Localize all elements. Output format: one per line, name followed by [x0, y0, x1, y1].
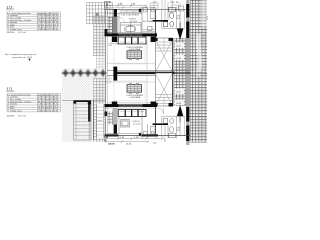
- window symbol top: [150, 3, 158, 8]
- svg-text:1.50: 1.50: [153, 143, 157, 145]
- terrain hatch strip left of plans (bottom): [93, 78, 106, 142]
- carpet outline (top living): [114, 45, 145, 65]
- kitchen wall x155.5 (top): [155, 10, 157, 38]
- small appliance blob (top): [148, 27, 153, 31]
- corner hatch bleed (bottom plan NW): [106, 76, 113, 84]
- area table unit 1/1: [7, 94, 61, 112]
- door label box top: [172, 5, 179, 10]
- bathroom dark wall (top): [153, 20, 169, 22]
- stair top black blob: [169, 38, 174, 41]
- svg-text:11.45: 11.45: [126, 144, 132, 146]
- lower flight white channel: [97, 104, 105, 138]
- left outer wall (double): [104, 10, 106, 136]
- terrain hatch strip left of plans (top): [93, 15, 105, 56]
- interior wall x147.5 (bottom): [147, 124, 149, 138]
- sofa blob (bottom room): [121, 120, 130, 128]
- level text in hatch (top): [175, 43, 184, 49]
- carpet outline (bottom living): [114, 81, 145, 101]
- kitchen wall x155.5 (bottom): [155, 107, 157, 136]
- svg-text:RAZEM : 70.76 m2: RAZEM : 70.76 m2: [7, 31, 27, 34]
- stair bottom black blob: [169, 103, 174, 107]
- right wall black segment 4 (bottom plan): [186, 126, 189, 142]
- level text in hatch (bottom): [175, 89, 184, 95]
- svg-text:RAZEM : 70.76 m2: RAZEM : 70.76 m2: [7, 114, 27, 117]
- dining table symbol (top): [127, 49, 142, 60]
- right wall black segment 3 (bottom plan): [186, 107, 189, 122]
- course dash line top: [186, 29, 207, 31]
- shrub bursts: [61, 69, 107, 77]
- terrain hatch field right of stair (top plan): [174, 38, 191, 73]
- terrain garden bottom-left: [62, 78, 93, 142]
- bathroom tiny text (top): [177, 16, 181, 21]
- interior vertical x147 (top): [146, 41, 148, 71]
- stair dark right rail: [88, 101, 91, 122]
- cabinet row (top plan): [118, 37, 146, 44]
- svg-text:7. schody zewn.: 7. schody zewn.: [8, 111, 23, 113]
- wall hatch bar above bottom pier: [113, 108, 118, 125]
- bottom outer wall line: [105, 135, 191, 137]
- chimney verticals above stair: [162, 0, 180, 10]
- bathroom walls (bottom): [162, 116, 180, 139]
- dining table symbol (bottom): [127, 83, 142, 94]
- hedge center line: [62, 72, 107, 74]
- lighter top-right corner of terrain: [201, 0, 208, 27]
- interior wall x142 (top): [141, 7, 143, 36]
- table unit 1/2 cell texts: [8, 13, 60, 31]
- sheet background: [0, 0, 210, 145]
- label underline: [6, 9, 14, 11]
- stair box (bottom plan): [156, 73, 173, 106]
- walkway light path in terrain: [198, 34, 200, 76]
- entrance arrow (top): [177, 29, 184, 41]
- svg-text:1/1.: 1/1.: [6, 87, 14, 92]
- revision note block: [5, 53, 37, 59]
- stair right wall dark (bottom): [172, 73, 174, 106]
- living room label (bottom): [127, 95, 144, 99]
- revision mark triangle: [28, 59, 30, 62]
- shaft hatch block (top entry corner): [107, 17, 112, 34]
- area table unit 1/2: [7, 12, 61, 30]
- top dimension line: [104, 5, 146, 7]
- upper window lines (top wall): [120, 11, 142, 12]
- right outer wall grey band: [186, 0, 189, 145]
- bottom dimension text block: [104, 137, 139, 146]
- exterior door swing below bottom wall: [159, 136, 166, 143]
- svg-text:KUCHNIA: KUCHNIA: [143, 20, 153, 23]
- shaft hatch block (bottom entry corner): [107, 112, 112, 125]
- window mullions in mid wall band (bottom): [124, 104, 138, 107]
- washer box top: [179, 6, 184, 11]
- bottom exterior stair (garden): [74, 101, 92, 141]
- retaining wall line: [93, 100, 95, 140]
- svg-text:11.2 m2: 11.2 m2: [130, 21, 138, 23]
- interior wall x147.5 (top): [147, 7, 149, 21]
- top dimension text block: [104, 1, 179, 5]
- inner wall line right (bottom): [184, 116, 186, 136]
- black pier A (below mid wall left): [112, 37, 117, 42]
- top wall inner line: [107, 12, 142, 14]
- svg-text:x2.2: x2.2: [177, 18, 181, 20]
- corridor door arc (bottom): [158, 108, 164, 114]
- top outer wall line: [105, 9, 191, 11]
- svg-text:+0.00: +0.00: [176, 103, 182, 105]
- room label blob 1 (top room): [121, 14, 139, 22]
- svg-text:Rys. uwzglednia zmiany wg rew: Rys. uwzglednia zmiany wg rew.: [5, 53, 37, 56]
- interior wall x119 (bottom): [118, 117, 120, 134]
- svg-text:2.55 x 3.20 POKOJ: 2.55 x 3.20 POKOJ: [121, 14, 139, 16]
- svg-text:2.08: 2.08: [108, 45, 112, 47]
- cabinet row (bottom plan): [118, 110, 146, 117]
- black fence segment: [74, 100, 91, 102]
- top exterior stair grid: [87, 3, 113, 24]
- svg-text:235 90: 235 90: [108, 144, 115, 146]
- black pier B (below mid wall right): [151, 37, 157, 42]
- right margin dim text: [206, 16, 208, 21]
- living room label (top): [127, 47, 144, 51]
- svg-text:c: c: [58, 111, 59, 113]
- garden stair top black piers: [74, 100, 77, 104]
- stair dark corner (bottom): [155, 103, 158, 106]
- svg-text:7. schody zewn.: 7. schody zewn.: [8, 29, 23, 31]
- bathroom tiny text (bottom): [177, 128, 181, 133]
- terrain hatch strip lower part (top): [96, 56, 105, 70]
- corridor wall line (top): [107, 16, 119, 18]
- right wall black segment 2: [186, 22, 189, 39]
- svg-text:x2.2: x2.2: [177, 130, 181, 132]
- stair box (top plan): [156, 38, 173, 73]
- entrance arrow (bottom): [177, 105, 184, 117]
- stair right wall dark (top): [172, 38, 174, 73]
- table unit 1/1 cell texts: [8, 94, 60, 112]
- course dash line lower: [186, 116, 207, 118]
- dimension ticks bottom: [105, 138, 163, 143]
- bathroom fixtures (top): [164, 7, 176, 27]
- window mullions in mid wall band (top): [124, 34, 138, 37]
- wall stub x104-107 above top wall: [105, 3, 107, 10]
- black pier bottom-left: [114, 125, 117, 135]
- room label blob (bottom room): [133, 121, 142, 126]
- svg-text:1/2.: 1/2.: [6, 5, 14, 10]
- garden fence line: [62, 100, 105, 102]
- dimension ticks top: [105, 5, 147, 9]
- left wall black blob (top): [105, 29, 108, 34]
- kitchen counter lower (top): [143, 30, 156, 32]
- svg-text:1.50: 1.50: [153, 2, 157, 4]
- left wall black blob (bottom): [105, 112, 108, 117]
- top dimension line 2: [104, 6, 146, 8]
- dim stubs above top wall: [119, 7, 148, 9]
- dim stubs below bottom wall: [106, 136, 157, 139]
- interior vertical x147 (bottom): [146, 76, 148, 105]
- door arc room1 (top): [119, 18, 125, 24]
- kitchen counter (top): [144, 8, 156, 19]
- interior wall x119 (top): [118, 13, 120, 34]
- svg-text:2.08 x 5.49: 2.08 x 5.49: [109, 43, 118, 45]
- terrain hatch field right of stair (bottom plan): [174, 73, 191, 107]
- black pier B (above bottom mid wall): [151, 102, 157, 107]
- wall inner line above bottom mid band: [107, 102, 156, 104]
- right wall black segment 1: [186, 4, 189, 18]
- right wall edge line: [189, 0, 191, 143]
- interior wall x142 (bottom): [141, 110, 143, 138]
- black pier x139-141 bottom: [139, 133, 141, 136]
- wall hatch bar above pier (top): [113, 17, 118, 33]
- bathroom bottom wall line (top): [162, 28, 185, 30]
- party wall black pier: [113, 67, 117, 81]
- svg-text:+ KUCHNIA: + KUCHNIA: [129, 96, 141, 99]
- black pier x139-141 top: [139, 9, 141, 12]
- inner wall line right (top): [184, 10, 186, 29]
- bottom outer wall dark segments: [105, 134, 119, 136]
- terrain hatch field right outer: [191, 0, 208, 143]
- bottom dimension lines: [104, 138, 162, 140]
- party wall band (middle): [107, 69, 190, 71]
- landing dot: [96, 13, 99, 16]
- stair dark corner (top): [155, 38, 158, 41]
- bathroom fixtures (bottom): [164, 118, 176, 138]
- bathroom walls (top): [162, 7, 180, 29]
- bottom wall inner line: [107, 132, 142, 134]
- black pier A (above bottom mid wall): [112, 102, 117, 107]
- svg-text:+0.00: +0.00: [176, 58, 182, 60]
- label underline 2: [6, 90, 14, 92]
- black pier top-left: [114, 9, 117, 17]
- svg-text:c: c: [58, 29, 59, 31]
- kitchen counter (bottom): [144, 127, 156, 136]
- table with chairs room1 (top): [125, 25, 136, 31]
- hedge band with shrubs: [61, 69, 107, 79]
- course dash line middle: [191, 72, 208, 74]
- mid wall band (bottom plan): [105, 104, 158, 107]
- bathroom top wall line (bottom): [162, 115, 185, 117]
- bed room1 (top): [121, 23, 142, 34]
- mid wall band (top plan): [105, 34, 158, 37]
- bathroom dark wall (bottom): [153, 123, 169, 125]
- svg-text:11.2 m2: 11.2 m2: [133, 124, 141, 126]
